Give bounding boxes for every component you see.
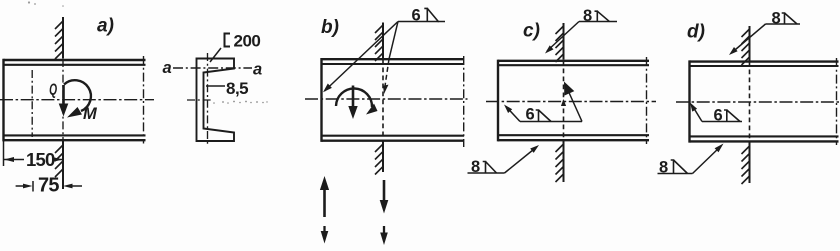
beam a outline xyxy=(4,59,146,142)
dimension 75 xyxy=(16,181,82,192)
svg-text:8: 8 xyxy=(772,9,781,27)
fillet weld symbol d top xyxy=(782,13,797,24)
wall a hatching below xyxy=(55,145,63,177)
weld flag 8 top (panel c) shelf xyxy=(579,21,617,23)
weld flag 8 top (panel d) shelf xyxy=(766,23,801,25)
scan noise dots xyxy=(213,101,267,104)
channel vertical axis xyxy=(207,53,209,147)
leader 2 to hidden weld xyxy=(389,22,398,60)
force arrow (panel b) xyxy=(352,86,355,108)
leader d top xyxy=(732,24,766,53)
fillet weld symbol c top xyxy=(595,11,610,22)
wall a hatching above xyxy=(55,21,63,59)
dimension 150 xyxy=(4,159,63,161)
leader c mid right (to hidden weld) xyxy=(567,87,583,122)
extension line left xyxy=(3,141,5,166)
scan speckles top-left xyxy=(28,1,64,6)
svg-text:b): b) xyxy=(321,17,339,38)
wall c hatching above xyxy=(556,26,564,62)
wall a xyxy=(62,17,64,189)
fillet weld symbol c mid xyxy=(536,110,551,122)
svg-text:200: 200 xyxy=(234,32,261,51)
svg-text:8: 8 xyxy=(583,7,592,25)
channel outline xyxy=(197,59,235,142)
small hidden-force arrowhead on wall line (panel c) xyxy=(561,99,566,106)
svg-text:6: 6 xyxy=(714,107,723,125)
channel horizontal axis xyxy=(187,99,212,101)
moment arc M xyxy=(64,80,91,111)
weld flag 6 (panel b) shelf xyxy=(398,21,445,23)
wall c hatching below xyxy=(556,144,564,182)
beam b outline xyxy=(322,58,465,142)
beam b center line xyxy=(305,98,468,100)
svg-text:a: a xyxy=(163,59,172,77)
svg-text:8,5: 8,5 xyxy=(226,79,248,98)
leader C200 xyxy=(210,48,221,62)
beam c center line xyxy=(486,101,656,103)
web thickness 8,5 xyxy=(206,85,225,87)
wall b hatching above xyxy=(375,25,383,61)
moment arrowhead b xyxy=(366,104,378,115)
fillet weld symbol d mid xyxy=(724,110,740,122)
reaction up arrow below beam xyxy=(323,188,326,217)
svg-text:a: a xyxy=(253,61,262,79)
beam a center line xyxy=(0,99,154,101)
mid-overhang axis line xyxy=(31,70,33,137)
weld flag 8 bottom (panel c) shelf xyxy=(468,172,505,174)
fillet weld symbol c bottom xyxy=(483,162,497,174)
leader c bottom xyxy=(505,148,537,174)
moment arrowhead xyxy=(67,107,82,118)
leader c top xyxy=(547,22,579,52)
svg-text:75: 75 xyxy=(38,175,59,197)
wall b xyxy=(382,23,384,173)
leader c mid left xyxy=(506,107,520,122)
weld flag 6 (panel c) shelf xyxy=(520,121,582,123)
wall c xyxy=(563,23,565,182)
svg-text:d): d) xyxy=(687,22,705,43)
beam b break line xyxy=(463,56,465,147)
small down arrow left pair xyxy=(323,226,325,232)
beam c outline xyxy=(498,60,649,142)
leader d mid xyxy=(693,106,703,122)
fillet weld symbol d bottom xyxy=(671,160,688,174)
svg-text:a): a) xyxy=(97,16,114,37)
small down arrow right pair xyxy=(383,226,385,233)
beam d center line xyxy=(676,101,840,103)
moment arc (panel b) xyxy=(336,88,372,107)
force Q arrow xyxy=(59,85,69,117)
weld flag 8 bottom (panel d) shelf xyxy=(658,173,693,175)
load down arrow below wall xyxy=(383,180,386,201)
beam d break line xyxy=(836,58,838,145)
leader 1 to beam end weld xyxy=(325,22,399,92)
svg-text:8: 8 xyxy=(471,158,480,176)
beam d outline xyxy=(690,60,839,142)
svg-text:c): c) xyxy=(523,21,540,42)
leader d bottom xyxy=(693,146,722,174)
svg-text:M: M xyxy=(83,105,98,123)
svg-text:150: 150 xyxy=(26,149,55,170)
weld flag 6 (panel d) shelf xyxy=(702,121,742,123)
wall d hatching above xyxy=(742,29,750,65)
wall d hatching below xyxy=(742,146,750,184)
svg-text:6: 6 xyxy=(526,106,535,124)
section line a-a xyxy=(173,67,252,69)
svg-text:6: 6 xyxy=(412,7,421,25)
beam a break line (right end) xyxy=(143,56,145,144)
svg-text:Q: Q xyxy=(49,80,57,98)
label C 200 xyxy=(225,34,231,47)
svg-text:8: 8 xyxy=(659,159,668,177)
beam c break line xyxy=(646,57,648,144)
wall b hatching below xyxy=(375,144,383,175)
fillet weld symbol b xyxy=(424,8,438,22)
wall d xyxy=(749,26,751,183)
